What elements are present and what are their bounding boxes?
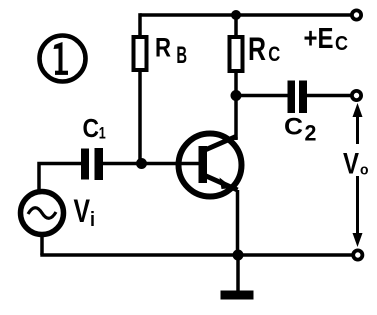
wire emitter down bbox=[236, 190, 240, 255]
svg-text:V: V bbox=[343, 147, 359, 180]
svg-text:R: R bbox=[155, 33, 171, 63]
capacitor C2 bbox=[288, 81, 308, 114]
wire C2 to output terminal bbox=[307, 94, 351, 98]
wire RB bottom to base node bbox=[138, 70, 142, 164]
node top rail junction bbox=[231, 10, 241, 20]
wire ground stem bbox=[236, 255, 240, 291]
wire RC top stub bbox=[234, 15, 238, 37]
wire top rail bbox=[140, 13, 351, 17]
svg-text:i: i bbox=[90, 209, 95, 231]
ground bbox=[221, 291, 254, 300]
terminal output bottom bbox=[353, 250, 362, 259]
transistor Q1 bbox=[179, 134, 242, 197]
svg-text:2: 2 bbox=[305, 120, 317, 145]
terminal +Ec bbox=[352, 10, 361, 19]
wire bottom rail bbox=[40, 253, 352, 257]
svg-text:C: C bbox=[268, 42, 280, 66]
svg-text:V: V bbox=[74, 193, 91, 229]
source Vi bbox=[21, 192, 64, 235]
terminal output top bbox=[352, 91, 361, 100]
wire base bbox=[103, 162, 199, 166]
wire C1 to source bbox=[39, 164, 81, 191]
svg-text:o: o bbox=[360, 162, 369, 179]
capacitor C1 bbox=[81, 148, 103, 180]
svg-text:C: C bbox=[83, 113, 100, 143]
svg-text:1: 1 bbox=[99, 124, 106, 143]
wire source bottom bbox=[40, 234, 44, 255]
wire RB top stub bbox=[138, 13, 142, 37]
figure number 1 (circled) bbox=[40, 36, 86, 82]
voltage arrow Vo down bbox=[353, 176, 363, 247]
node emitter ground junction bbox=[233, 250, 244, 261]
voltage arrow Vo up bbox=[353, 103, 363, 144]
wire collector node to C2 bbox=[236, 94, 288, 98]
resistor RC bbox=[230, 37, 243, 71]
svg-text:B: B bbox=[176, 42, 187, 69]
resistor RB bbox=[134, 37, 147, 70]
node base junction bbox=[136, 158, 147, 169]
node collector junction bbox=[231, 90, 242, 101]
svg-text:C: C bbox=[335, 32, 348, 55]
svg-text:C: C bbox=[284, 114, 303, 141]
svg-text:R: R bbox=[248, 31, 266, 67]
wire RC bottom to collector bbox=[234, 71, 238, 140]
svg-text:+E: +E bbox=[304, 23, 334, 55]
